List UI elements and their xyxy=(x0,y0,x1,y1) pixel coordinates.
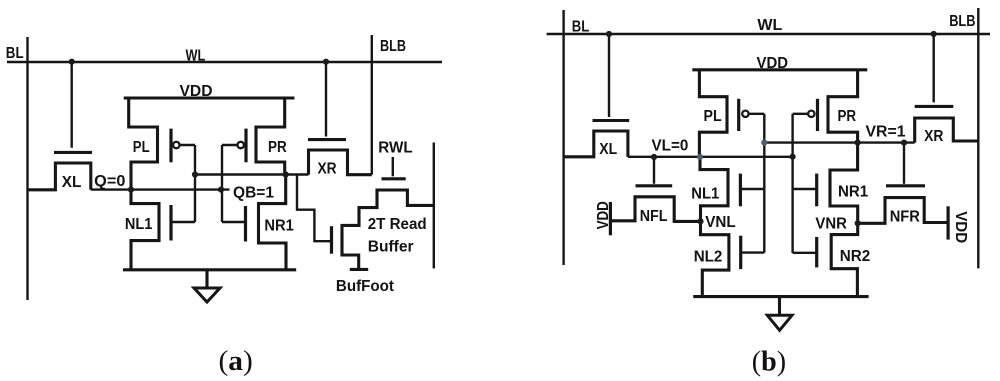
svg-text:PL: PL xyxy=(133,139,150,156)
svg-text:XR: XR xyxy=(318,161,337,178)
svg-text:VDD: VDD xyxy=(757,55,789,72)
svg-text:2T Read: 2T Read xyxy=(368,216,427,233)
svg-text:NR2: NR2 xyxy=(840,248,871,265)
svg-text:(a): (a) xyxy=(219,345,253,377)
svg-text:XR: XR xyxy=(924,128,944,145)
svg-text:Buffer: Buffer xyxy=(368,239,414,256)
svg-text:RWL: RWL xyxy=(378,140,413,157)
svg-text:BufFoot: BufFoot xyxy=(336,278,395,295)
svg-text:WL: WL xyxy=(186,47,206,64)
svg-text:NL1: NL1 xyxy=(125,216,153,233)
svg-text:Q=0: Q=0 xyxy=(94,173,125,190)
svg-text:VDD: VDD xyxy=(595,201,612,229)
svg-text:XL: XL xyxy=(599,141,617,158)
svg-text:VR=1: VR=1 xyxy=(866,124,906,141)
svg-text:NR1: NR1 xyxy=(838,184,868,201)
svg-text:VL=0: VL=0 xyxy=(652,137,689,154)
svg-text:BLB: BLB xyxy=(949,13,975,30)
svg-text:(b): (b) xyxy=(752,346,786,378)
svg-text:XL: XL xyxy=(62,174,82,191)
svg-text:QB=1: QB=1 xyxy=(233,185,274,202)
svg-text:VNR: VNR xyxy=(815,216,847,233)
svg-text:BLB: BLB xyxy=(380,38,406,55)
svg-text:WL: WL xyxy=(757,17,782,34)
svg-text:PR: PR xyxy=(838,108,857,125)
svg-text:NL1: NL1 xyxy=(691,185,719,202)
svg-text:BL: BL xyxy=(572,18,590,35)
svg-text:NR1: NR1 xyxy=(264,217,293,234)
svg-text:VNL: VNL xyxy=(705,214,736,231)
svg-text:VDD: VDD xyxy=(952,211,969,243)
svg-text:BL: BL xyxy=(6,45,24,62)
svg-text:PL: PL xyxy=(704,108,722,125)
svg-text:NFR: NFR xyxy=(890,208,921,225)
svg-text:NFL: NFL xyxy=(640,208,668,225)
svg-text:VDD: VDD xyxy=(180,83,213,100)
svg-text:PR: PR xyxy=(268,139,287,156)
svg-text:NL2: NL2 xyxy=(694,248,723,265)
